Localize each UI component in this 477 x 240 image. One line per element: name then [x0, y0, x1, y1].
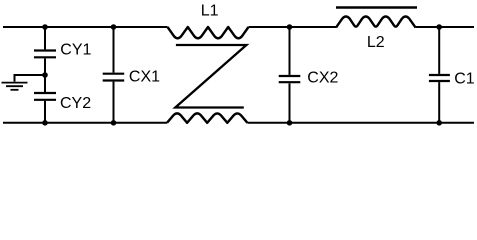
svg-text:L2: L2	[367, 34, 385, 51]
svg-text:L1: L1	[201, 2, 219, 19]
svg-text:CY2: CY2	[60, 95, 91, 112]
svg-text:CY1: CY1	[60, 42, 91, 59]
svg-text:CX1: CX1	[129, 69, 160, 86]
svg-text:CX2: CX2	[307, 69, 338, 86]
svg-text:C1: C1	[454, 71, 475, 88]
